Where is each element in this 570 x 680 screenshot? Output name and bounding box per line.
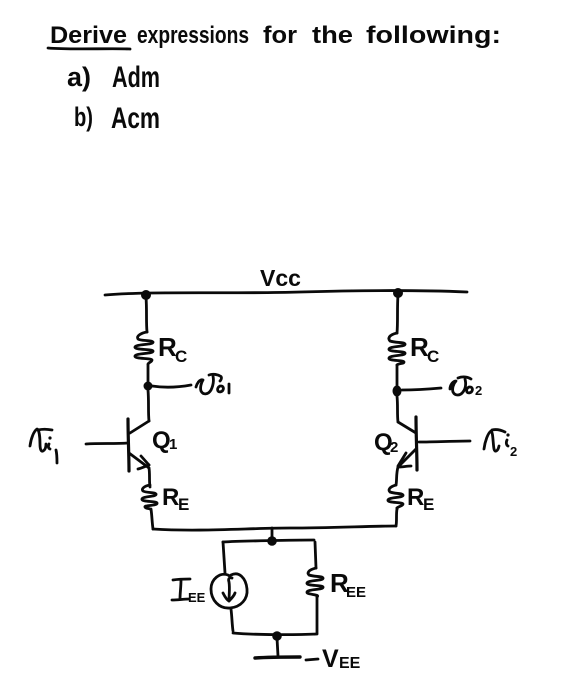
wire Vcc to RC left <box>146 297 147 332</box>
wire node to Vo2 label <box>402 388 441 390</box>
underline under "Derive" <box>48 48 130 49</box>
svg-text:R: R <box>162 484 179 511</box>
node dot Vo1 <box>144 382 153 391</box>
svg-text:Adm: Adm <box>112 61 160 94</box>
svg-text:2: 2 <box>390 439 398 456</box>
wire RC to node Vo2 <box>396 365 399 386</box>
net label Vo2 <box>450 377 482 398</box>
resistor RC (right) <box>389 333 405 365</box>
designator Q1 <box>152 427 177 454</box>
net label -VEE <box>322 645 361 673</box>
resistor RC (left) <box>135 332 153 364</box>
item a) Adm <box>67 61 160 94</box>
svg-text:Vcc: Vcc <box>260 265 301 291</box>
wire IEE to box bottom <box>231 609 233 631</box>
net label Vo1 <box>196 374 229 394</box>
wire Vo1 node to Q1 collector <box>148 390 149 421</box>
wire RC to node Vo1 <box>147 365 150 383</box>
resistor RE (left) <box>142 485 157 509</box>
wire bottom node to VEE bar <box>277 638 278 656</box>
transistor Q1 <box>128 419 149 471</box>
current source IEE <box>211 574 247 608</box>
wire tail box left upper <box>223 542 225 573</box>
value label RE (right) <box>407 484 434 514</box>
item b) Acm <box>74 102 160 135</box>
node dot Vo2 <box>393 386 402 397</box>
dash before VEE <box>306 659 318 660</box>
svg-text:Acm: Acm <box>111 102 160 135</box>
wire right RE lower corner <box>396 509 397 526</box>
svg-text:the: the <box>312 22 353 49</box>
wire bottom rail <box>153 526 396 530</box>
svg-text:2: 2 <box>510 444 517 459</box>
svg-text:V: V <box>322 645 339 673</box>
power symbol -VEE bar <box>255 657 300 658</box>
node junction dot right collector-rail <box>393 288 403 298</box>
designator Q2 <box>374 429 398 456</box>
svg-text:following:: following: <box>366 22 501 49</box>
svg-text:C: C <box>175 347 187 366</box>
svg-text:E: E <box>423 495 434 514</box>
value label REE <box>330 568 366 601</box>
wire junction stub to tail node <box>271 528 274 539</box>
wire base Q2 input <box>419 441 470 442</box>
svg-text:E: E <box>178 495 189 514</box>
value label RC (left) <box>158 332 187 366</box>
svg-text:for: for <box>263 22 297 49</box>
svg-text:EE: EE <box>339 655 361 672</box>
wire Vo2 node to Q2 collector <box>397 396 398 422</box>
svg-text:1: 1 <box>169 436 177 453</box>
svg-text:Q: Q <box>152 427 171 454</box>
wire Vcc to RC right <box>397 295 398 333</box>
node dot bottom junction <box>272 631 282 641</box>
value label RC (right) <box>410 332 439 366</box>
resistor REE <box>307 568 323 597</box>
wire Q2 emitter to RE <box>396 467 398 485</box>
svg-text:Derive: Derive <box>50 22 127 49</box>
svg-text:R: R <box>407 484 424 511</box>
wire tail box right upper <box>315 542 316 568</box>
designator IEE <box>172 579 206 605</box>
svg-text:EE: EE <box>188 590 206 605</box>
wire RE right to corner <box>396 508 399 509</box>
wire tail box top <box>223 540 314 542</box>
wire Vcc rail <box>105 291 467 296</box>
transistor Q2 <box>398 417 417 470</box>
net label Vi1 <box>30 429 57 463</box>
wire tail box bottom <box>233 633 317 635</box>
net label Vi2 <box>484 430 517 459</box>
wire base Q1 input <box>86 443 128 444</box>
title text "Derive expressions for the following:" <box>50 22 501 49</box>
svg-text:C: C <box>427 347 439 366</box>
svg-text:2: 2 <box>475 383 482 398</box>
wire node to Vo1 label <box>152 385 191 387</box>
wire Q1 emitter to RE <box>149 468 150 487</box>
svg-text:a): a) <box>67 62 91 92</box>
svg-text:expressions: expressions <box>137 22 249 49</box>
value label RE (left) <box>162 484 189 514</box>
node dot tail junction <box>267 536 277 546</box>
wire REE to box bottom <box>316 597 319 633</box>
node junction dot left collector-rail <box>141 290 151 300</box>
svg-text:EE: EE <box>346 584 366 601</box>
resistor RE (right) <box>388 485 403 508</box>
wire RE to bottom rail corner <box>151 509 153 529</box>
svg-text:b): b) <box>74 102 93 132</box>
